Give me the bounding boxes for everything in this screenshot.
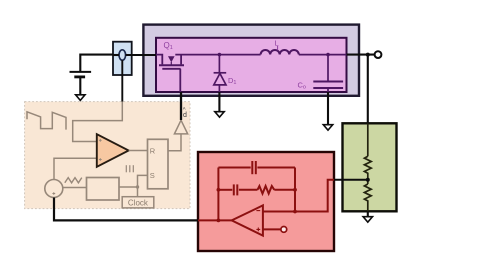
clock box xyxy=(122,197,154,208)
wire (clock to junction) xyxy=(137,187,139,197)
wire (feedback right rail) xyxy=(294,168,296,212)
ground (divider) xyxy=(363,217,372,223)
svg-text:d: d xyxy=(183,112,187,119)
ground (Co) xyxy=(323,125,332,131)
wire (summer to comparator) xyxy=(54,158,97,179)
wire (op-amp output) xyxy=(198,219,232,221)
wire (inductor to output) xyxy=(299,54,347,56)
wire (inverting input) xyxy=(263,211,295,213)
feedback divider block (green box) xyxy=(343,123,397,211)
comparator xyxy=(97,134,129,167)
node (output / feedback) xyxy=(217,219,221,223)
ground (battery) xyxy=(76,95,85,101)
wire (control: op-amp out to summer) xyxy=(54,198,198,221)
transistor Q1 xyxy=(156,55,261,69)
power stage inner box (magenta) xyxy=(156,38,347,92)
wire (to feedback tap) xyxy=(295,180,334,212)
svg-text:S: S xyxy=(150,171,155,180)
wire (switch node ground via D1) xyxy=(218,92,220,112)
node S junction xyxy=(136,185,139,188)
wire (Vout into divider) xyxy=(367,123,369,156)
current sense element xyxy=(119,50,126,60)
output terminal xyxy=(375,51,382,58)
sawtooth ramp icon xyxy=(27,112,66,130)
power stage outer box (lavender) xyxy=(143,25,359,96)
wire (feedback tap) xyxy=(334,179,368,181)
node (inverting input) xyxy=(293,210,297,214)
current sensor box (blue) xyxy=(113,42,132,75)
wire (duty signal up to Q1) xyxy=(180,92,182,120)
wire (junction to S input) xyxy=(138,175,148,187)
wire (summer to gain block) xyxy=(63,187,87,189)
node (middle branch left) xyxy=(217,188,221,192)
node feedback junction xyxy=(366,178,370,182)
svg-text:Clock: Clock xyxy=(128,199,149,208)
wire (sense signal to comparator) xyxy=(73,102,123,142)
wire (sensor to switch) xyxy=(126,54,156,56)
resistor (divider top) xyxy=(364,156,371,184)
wire (divider ground) xyxy=(367,211,369,216)
modulator block (orange dashed box) xyxy=(25,102,190,209)
wire (sense signal down) xyxy=(121,60,123,101)
inductor L xyxy=(261,50,299,55)
node (middle branch right) xyxy=(293,188,297,192)
battery V_in xyxy=(70,55,114,95)
svg-text:R: R xyxy=(150,146,156,155)
latch (SR) xyxy=(148,139,169,189)
wire (feedback left rail) xyxy=(217,168,219,221)
buffer (gate driver) xyxy=(174,120,187,134)
wire (Vout down to divider) xyxy=(367,55,369,124)
capacitor Co xyxy=(326,53,330,57)
wire (output) xyxy=(347,54,375,56)
node Vout junction xyxy=(366,53,370,57)
wire (Co ground) xyxy=(327,92,329,125)
wire (gain block to S) xyxy=(119,186,138,188)
diode D1 xyxy=(218,53,222,57)
op-amp (error amplifier) xyxy=(232,205,263,235)
capacitor + resistor (lead branch) xyxy=(218,184,295,195)
reference terminal xyxy=(281,227,287,233)
wire (comparator out to R) xyxy=(129,150,148,152)
gain block xyxy=(87,178,120,201)
compensator block (red box) xyxy=(198,152,334,251)
ground (D1) xyxy=(215,112,224,118)
wire (gate drive, inside box) xyxy=(179,69,181,92)
resistor squiggle (gain annotation) xyxy=(65,178,82,183)
wire (non-inverting ref input) xyxy=(263,228,281,230)
wire (latch out to buffer) xyxy=(168,134,181,151)
summer node xyxy=(45,180,63,198)
resistor (divider bottom) xyxy=(364,184,371,211)
pulse train icon xyxy=(126,165,133,172)
capacitor (integrator, top branch) xyxy=(218,161,295,174)
